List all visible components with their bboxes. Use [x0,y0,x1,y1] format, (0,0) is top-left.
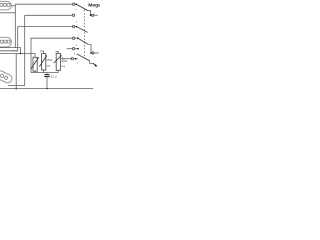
ground rail [0,88,93,90]
connector J1 [0,1,11,10]
svg-text:a: a [78,34,80,36]
svg-text:b: b [76,45,78,47]
pin wire 2 [94,52,99,54]
junction dots on contacts [75,3,79,59]
switch lever S3 [78,38,89,44]
switch lever S1 [76,4,88,11]
ground drop from H [15,54,17,89]
junction dot [20,53,22,55]
junction dot [90,14,92,16]
wire B2 (riser to contact 2) [25,14,73,16]
wire B (left edge) [0,12,15,14]
connector J2 [0,37,11,47]
svg-text:log: log [62,64,66,68]
svg-text:250k: 250k [62,59,69,63]
junction dot [15,88,17,90]
vertical V1 [14,4,16,47]
junction dot [90,52,92,54]
pole wire 3 [88,44,91,53]
svg-text:b: b [76,22,78,24]
potentiometer Pb [39,51,47,73]
switch contact circles [71,3,75,60]
riser 2 + wire C (contact 3) [12,27,73,51]
svg-text:10 µ: 10 µ [51,75,57,79]
wire A (J1 to contact 1) [15,3,72,5]
riser B-H [24,15,26,85]
contact stubs [73,4,78,59]
pot Pa bottom stub [34,71,36,72]
potentiometer Pa [31,57,39,71]
switch lever S4 [77,54,90,61]
switch lever S2 open [77,27,88,33]
svg-text:a: a [76,9,78,11]
pole wire 1 [88,11,91,16]
wire F + drop to H [0,48,21,54]
pin circle 1 [92,14,94,16]
svg-text:a: a [77,62,79,64]
wire G [0,50,18,52]
connector J3 [0,69,13,84]
pin wire 1 [94,14,98,16]
svg-text:Mega: Mega [88,2,100,8]
connector J3 pin wire [8,85,25,87]
svg-text:b: b [74,54,76,56]
wire H (to pot Pa top) [0,54,35,58]
svg-text:250k: 250k [46,58,53,62]
stub from J1 [11,5,15,7]
svg-text:log: log [46,64,50,68]
wire E (contact 4) + drop to bus [31,38,72,72]
potentiometer Pc [54,51,62,72]
capacitor C1 10u [44,73,49,90]
pot bottom bus [31,72,58,74]
gang dashed line [84,10,86,58]
pin circle 2 [92,52,94,54]
arrow out [93,63,96,65]
wire pot Pc wiper to contact 6 [61,58,71,60]
wire stub contact 5 [67,48,73,50]
switch labels [74,9,80,64]
pole wire 4 with arrow [90,61,94,64]
